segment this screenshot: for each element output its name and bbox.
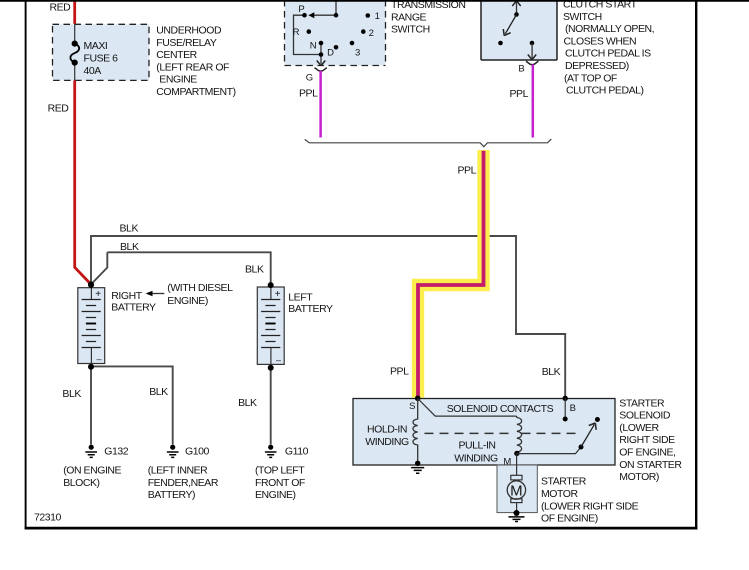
svg-text:BLK: BLK [245, 264, 264, 276]
svg-text:FUSE 6: FUSE 6 [84, 53, 119, 65]
node S terminal [415, 396, 421, 402]
label RED (top) [50, 2, 72, 14]
node clutch B contact [530, 41, 535, 46]
label (ON ENGINE BLOCK) [63, 465, 121, 489]
wire BLK battery+ to solenoid B terminal [91, 236, 565, 398]
node 2 [361, 29, 366, 34]
label BLK (above left battery) [245, 264, 264, 276]
label BLK (at B terminal) [542, 366, 561, 378]
node right battery top [88, 282, 94, 288]
node right battery bottom [88, 364, 94, 370]
svg-text:ENGINE): ENGINE) [255, 489, 296, 501]
svg-text:FRONT OF: FRONT OF [255, 477, 305, 489]
label BLK (battery+ to B wire) [120, 223, 139, 235]
transmission switch N-D link [320, 43, 322, 55]
pin label B (solenoid) [570, 403, 576, 414]
label SOLENOID CONTACTS [447, 403, 554, 415]
svg-text:MOTOR): MOTOR) [619, 471, 659, 483]
label G110 [285, 446, 309, 458]
node clutch lower-left contact [498, 41, 503, 46]
transmission switch exit wire with arrow [317, 55, 326, 66]
pull-in winding coil L2 [516, 416, 522, 453]
svg-text:BLK: BLK [62, 388, 81, 400]
svg-text:OF ENGINE,: OF ENGINE, [619, 447, 675, 459]
ground starter motor [509, 510, 525, 522]
svg-text:3: 3 [355, 47, 360, 58]
svg-text:R: R [293, 27, 300, 38]
border bottom [25, 527, 698, 530]
svg-text:CLUTCH PEDAL IS: CLUTCH PEDAL IS [565, 48, 651, 60]
solenoid B contact lead [564, 399, 566, 420]
value label MAXI FUSE 6 40A [84, 40, 119, 77]
svg-text:40A: 40A [84, 65, 102, 77]
label (TOP LEFT FRONT OF ENGINE) [255, 465, 305, 501]
pin label B (clutch) [518, 64, 524, 75]
svg-text:B: B [518, 64, 524, 75]
node clutch top [514, 12, 519, 17]
wire BLK right battery- to G132 [90, 366, 92, 444]
node P [302, 13, 307, 18]
svg-text:G110: G110 [285, 446, 309, 458]
label BLK (G100 wire) [149, 386, 168, 398]
svg-text:1: 1 [375, 11, 380, 22]
svg-text:LEFT: LEFT [288, 291, 313, 303]
node arm fixed contact [595, 417, 600, 422]
svg-text:PULL-IN: PULL-IN [458, 440, 495, 452]
svg-text:ENGINE): ENGINE) [167, 295, 208, 307]
ground hold-in winding [411, 461, 424, 474]
motor brush top [511, 475, 522, 480]
label G132 [104, 446, 128, 458]
svg-text:PPL: PPL [510, 88, 529, 100]
wire RED from top to fuse [73, 0, 76, 24]
wire BLK battery+ to left battery [91, 252, 271, 285]
motor ground lead [516, 503, 518, 514]
label (LEFT INNER FENDER,NEAR BATTERY) [148, 465, 219, 501]
svg-text:FENDER,NEAR: FENDER,NEAR [148, 477, 219, 489]
wire BLK left battery- to G110 [270, 368, 272, 445]
svg-text:SWITCH: SWITCH [391, 24, 430, 36]
label BLK (G132 wire) [62, 388, 81, 400]
svg-text:G132: G132 [104, 446, 128, 458]
label RED (below fuse) [48, 103, 70, 115]
svg-text:(NORMALLY OPEN,: (NORMALLY OPEN, [565, 23, 654, 35]
motor brush bottom [511, 499, 522, 503]
ground G110 [265, 445, 277, 458]
brace joining PPL wires [305, 139, 552, 147]
label G100 [185, 446, 209, 458]
battery LEFT BATTERY [257, 287, 284, 365]
connector G [314, 68, 327, 71]
svg-text:G: G [306, 73, 313, 84]
svg-text:SWITCH: SWITCH [563, 11, 602, 23]
node D [319, 52, 324, 57]
pin label N [310, 41, 317, 52]
svg-text:CENTER: CENTER [156, 49, 197, 61]
svg-text:G100: G100 [185, 446, 209, 458]
svg-text:(AT TOP OF: (AT TOP OF [564, 72, 617, 84]
svg-text:FUSE/RELAY: FUSE/RELAY [156, 37, 217, 49]
svg-text:(ON ENGINE: (ON ENGINE [63, 465, 121, 477]
svg-text:–: – [276, 355, 281, 365]
ground G100 [167, 445, 179, 458]
starter motor lead from M [516, 453, 518, 475]
svg-text:RED: RED [50, 2, 72, 14]
hold-in winding coil L1 [413, 399, 418, 464]
svg-text:RIGHT SIDE: RIGHT SIDE [619, 434, 675, 446]
motor M1 circle [507, 481, 525, 500]
label RIGHT BATTERY [111, 290, 156, 314]
label CLUTCH START SWITCH [563, 0, 654, 97]
svg-text:(LEFT REAR OF: (LEFT REAR OF [156, 61, 229, 73]
border right [695, 0, 697, 529]
svg-text:HOLD-IN: HOLD-IN [367, 424, 407, 436]
svg-text:(LOWER: (LOWER [619, 422, 659, 434]
pin label G [306, 73, 313, 84]
svg-text:P: P [298, 4, 304, 15]
svg-text:SOLENOID: SOLENOID [619, 410, 671, 422]
svg-text:–: – [96, 354, 101, 364]
border left [25, 0, 27, 529]
svg-text:PPL: PPL [458, 165, 477, 177]
label LEFT BATTERY [288, 291, 333, 315]
clutch switch blade with arrow [503, 15, 516, 36]
svg-text:CLUTCH PEDAL): CLUTCH PEDAL) [566, 85, 644, 97]
svg-text:STARTER: STARTER [619, 397, 665, 409]
node arm pivot [579, 445, 584, 450]
node N [319, 41, 324, 46]
pin label R [293, 27, 300, 38]
svg-text:RIGHT: RIGHT [111, 290, 142, 302]
node R [307, 29, 312, 34]
fuse box fill (underhood fuse/relay center) [53, 24, 150, 80]
svg-text:MAXI: MAXI [84, 40, 108, 52]
svg-text:BLK: BLK [120, 223, 139, 235]
node 3 [350, 41, 355, 46]
svg-text:BLOCK): BLOCK) [63, 477, 99, 489]
svg-text:BLK: BLK [120, 241, 139, 253]
transmission switch supply wire [335, 0, 337, 15]
connector B (clutch) [526, 61, 539, 64]
border top [0, 0, 749, 2]
svg-text:S: S [409, 401, 415, 412]
clutch B exit wire with arrow [528, 43, 536, 60]
node D right contact [334, 45, 339, 50]
svg-text:(LEFT INNER: (LEFT INNER [148, 465, 208, 477]
svg-text:ON STARTER: ON STARTER [619, 459, 682, 471]
pin label D [327, 48, 334, 59]
svg-text:BATTERY: BATTERY [111, 302, 156, 314]
solenoid contact arm with arrow [581, 423, 596, 447]
node 1 [366, 13, 371, 18]
label UNDERHOOD FUSE/RELAY CENTER [156, 25, 235, 99]
svg-text:M: M [503, 457, 511, 468]
node supply junction [334, 13, 339, 18]
label STARTER MOTOR [541, 476, 639, 525]
fuse internal leads [74, 24, 76, 81]
svg-text:CLOSES WHEN: CLOSES WHEN [564, 35, 637, 47]
label BLK (battery+ to left battery wire) [120, 241, 139, 253]
node battery+ junction [88, 282, 94, 288]
transmission switch wiper arm with arrow [308, 12, 336, 18]
label PPL (at S terminal) [390, 366, 409, 378]
pin label 2 [369, 28, 374, 39]
pin label M [503, 457, 511, 468]
label HOLD-IN WINDING [365, 424, 409, 449]
svg-text:PPL: PPL [299, 88, 318, 100]
svg-text:72310: 72310 [34, 512, 62, 524]
highlighted wire PPL to solenoid S (yellow highlight) [418, 150, 484, 398]
svg-text:RANGE: RANGE [391, 11, 427, 23]
arrow (with diesel engine) [146, 291, 165, 296]
svg-text:B: B [570, 403, 576, 414]
node left battery top [268, 282, 274, 288]
svg-text:ENGINE: ENGINE [159, 74, 197, 86]
svg-text:SOLENOID CONTACTS: SOLENOID CONTACTS [447, 403, 554, 415]
starter solenoid box [353, 399, 615, 466]
svg-text:M: M [510, 482, 523, 499]
fuse element MAXI FUSE 6 40A [70, 41, 79, 66]
label (WITH DIESEL ENGINE) [167, 282, 233, 307]
svg-text:OF ENGINE): OF ENGINE) [541, 513, 598, 525]
node M terminal [514, 451, 519, 456]
label STARTER SOLENOID [619, 397, 682, 483]
pin label 1 [375, 11, 380, 22]
pin label S [409, 401, 415, 412]
svg-text:COMPARTMENT): COMPARTMENT) [156, 86, 235, 98]
svg-text:BLK: BLK [149, 386, 168, 398]
wire RED from fuse to right battery [75, 81, 91, 285]
svg-text:BATTERY): BATTERY) [148, 489, 195, 501]
transmission switch P loop wire [294, 15, 322, 54]
svg-text:2: 2 [369, 28, 374, 39]
label PPL (clutch wire) [510, 88, 529, 100]
svg-text:BATTERY: BATTERY [288, 303, 333, 315]
svg-text:MOTOR: MOTOR [541, 488, 579, 500]
svg-text:WINDING: WINDING [365, 436, 409, 448]
mechanical linkage dashed line [425, 432, 580, 434]
svg-text:BLK: BLK [238, 397, 257, 409]
svg-text:PPL: PPL [390, 366, 409, 378]
wire M to contact arm pivot [517, 447, 581, 454]
starter motor box [497, 465, 537, 513]
ground G132 [85, 445, 97, 458]
wire BLK right battery- to G100 [91, 366, 173, 444]
pin label P [298, 4, 304, 15]
label TRANSMISSION RANGE SWITCH [391, 0, 466, 36]
svg-text:D: D [327, 48, 334, 59]
svg-text:N: N [310, 41, 317, 52]
svg-text:(LOWER RIGHT SIDE: (LOWER RIGHT SIDE [541, 500, 639, 512]
node B terminal [563, 396, 568, 401]
node B inner contact [563, 417, 568, 422]
wire PPL from G to brace [319, 71, 322, 138]
svg-text:RED: RED [48, 103, 70, 115]
svg-text:UNDERHOOD: UNDERHOOD [156, 25, 222, 37]
label PPL (G wire) [299, 88, 318, 100]
clutch switch supply arrow [512, 1, 520, 15]
label PPL (highlighted wire top) [458, 165, 477, 177]
node left battery bottom [268, 365, 274, 371]
svg-text:BLK: BLK [542, 366, 561, 378]
label PULL-IN WINDING [454, 440, 498, 465]
svg-text:(TOP LEFT: (TOP LEFT [255, 465, 305, 477]
solenoid contacts feed line [418, 399, 516, 417]
clutch start switch box [481, 0, 557, 60]
wire PPL from clutch B to brace [532, 65, 535, 138]
svg-text:(WITH DIESEL: (WITH DIESEL [167, 282, 233, 294]
svg-text:+: + [95, 289, 101, 300]
battery RIGHT BATTERY [78, 288, 105, 364]
transmission range switch box [285, 0, 386, 66]
pin label 3 [355, 47, 360, 58]
label BLK (G110 wire) [238, 397, 257, 409]
svg-text:+: + [275, 289, 281, 300]
svg-text:DEPRESSED): DEPRESSED) [565, 60, 629, 72]
svg-text:WINDING: WINDING [454, 453, 498, 465]
label 72310 [34, 512, 62, 524]
svg-text:STARTER: STARTER [541, 476, 587, 488]
